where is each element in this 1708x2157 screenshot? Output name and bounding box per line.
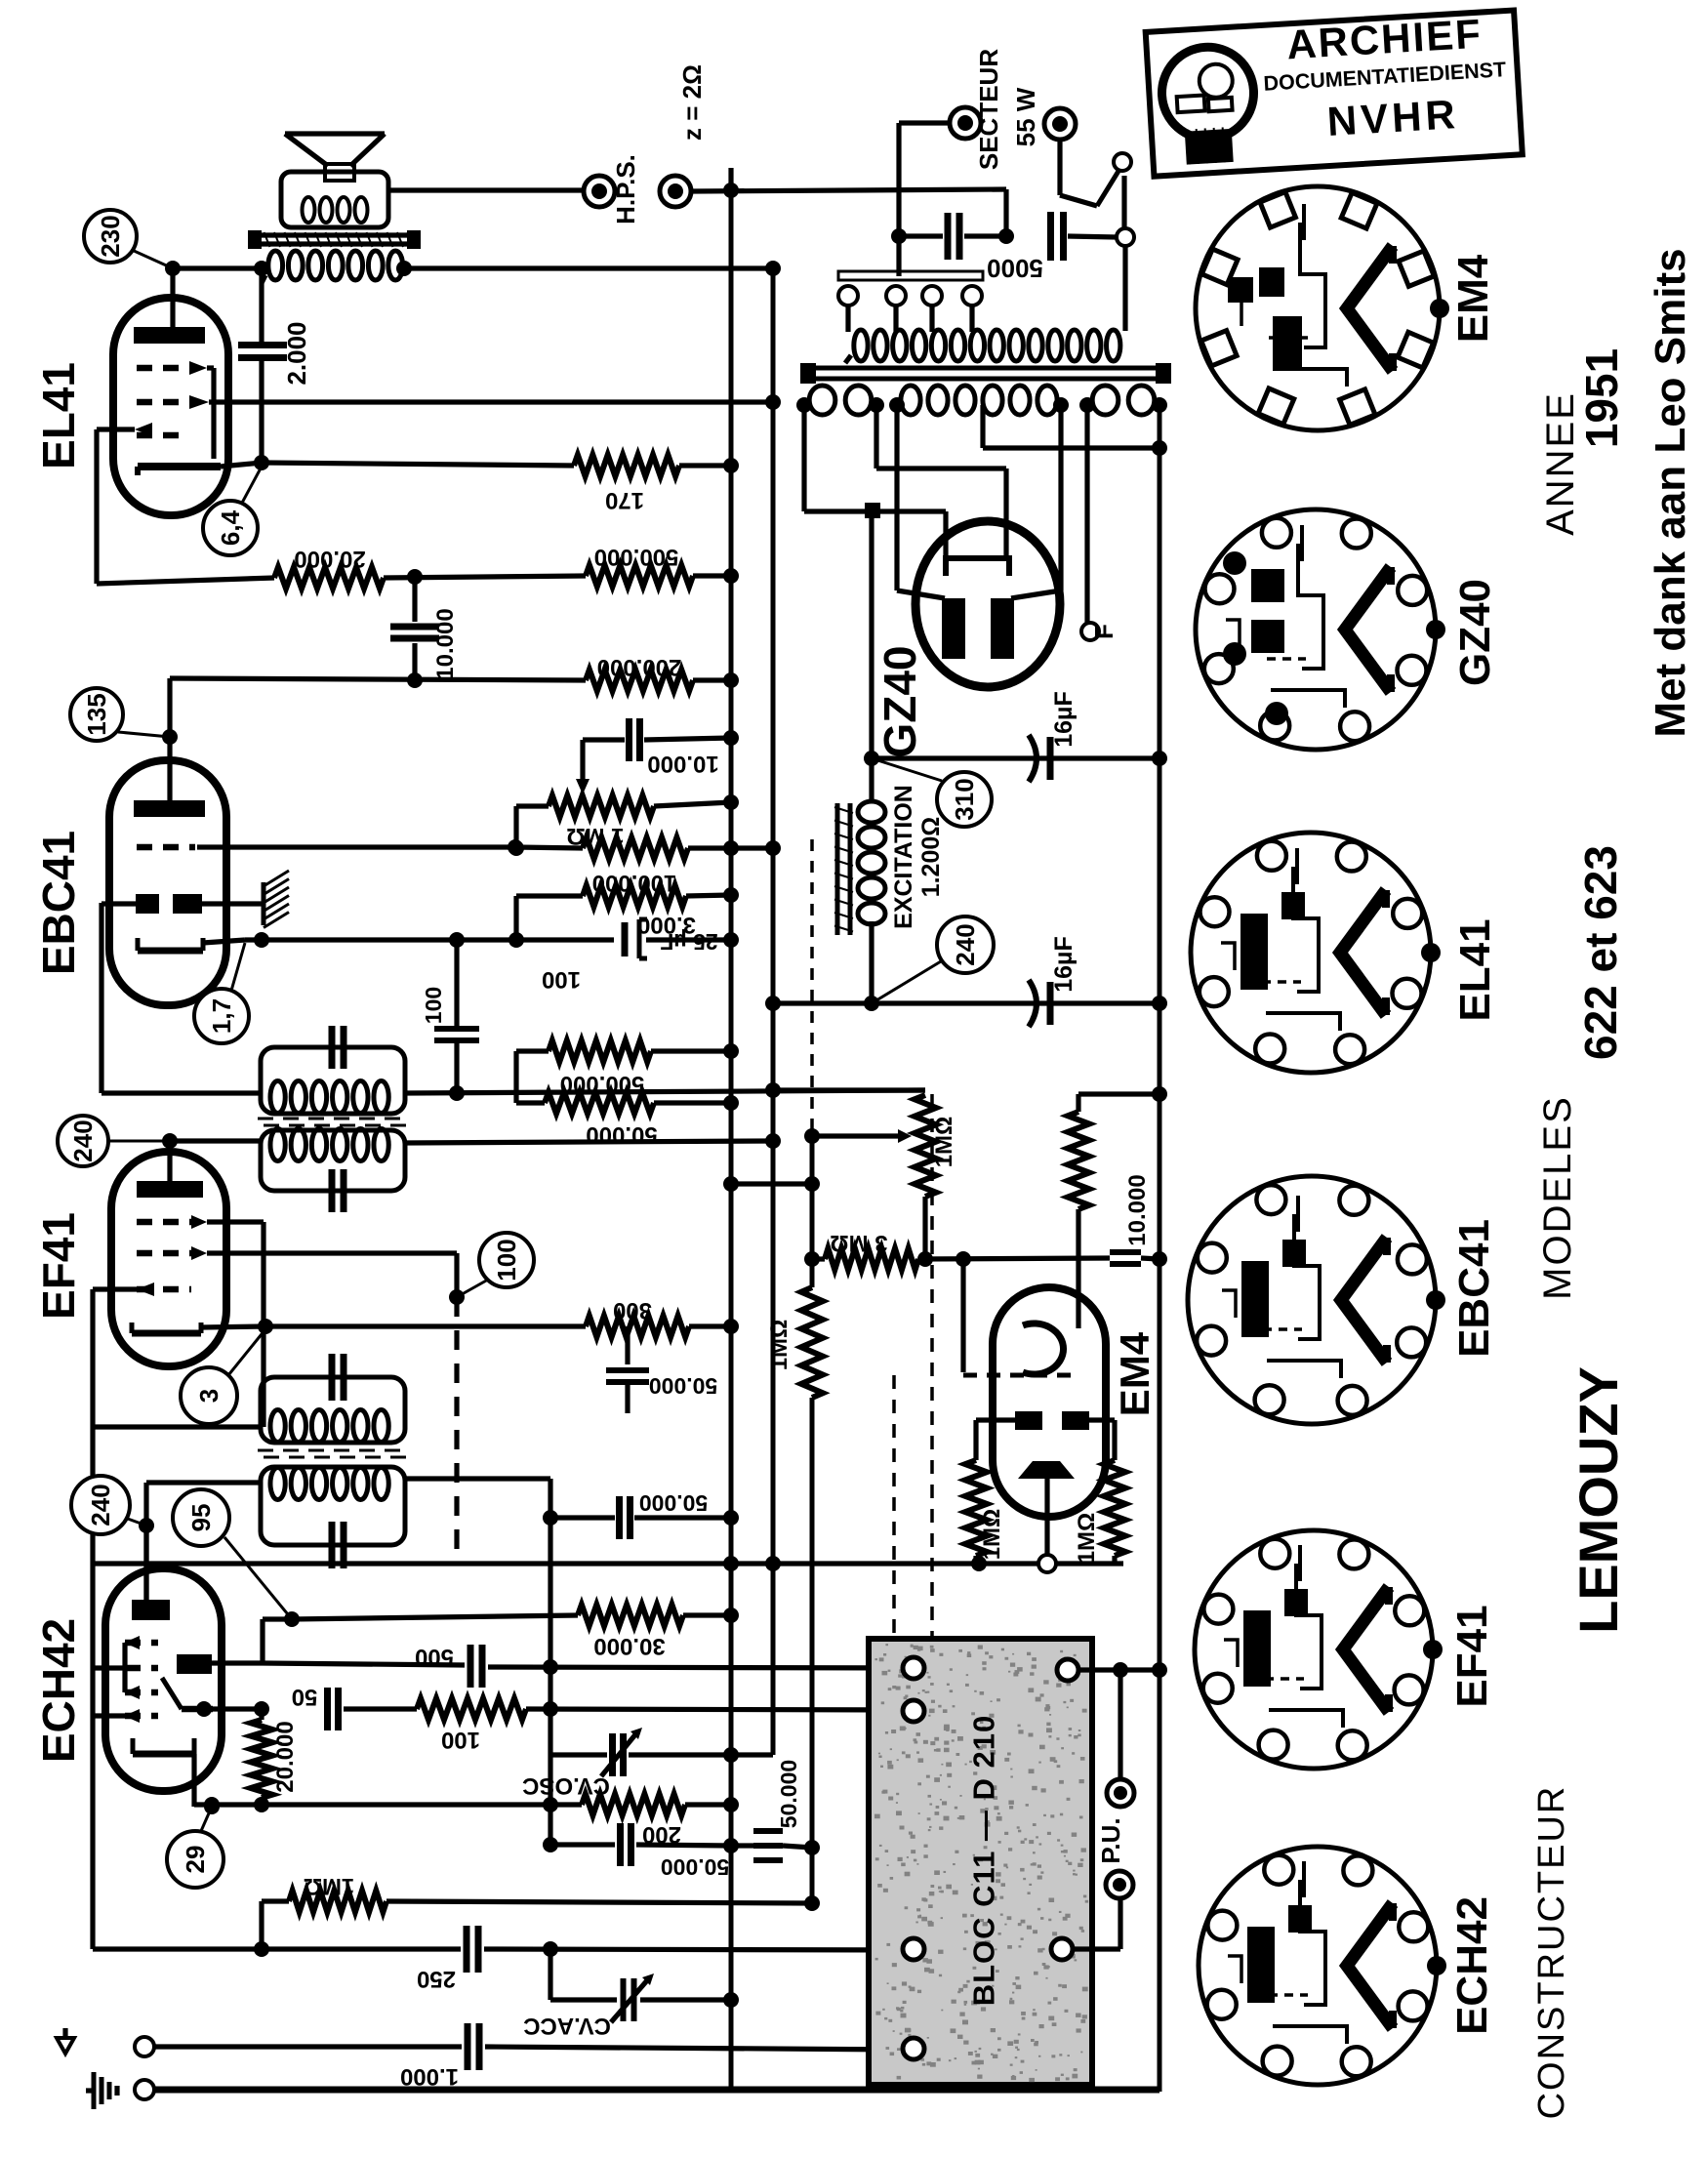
svg-text:29: 29 xyxy=(181,1846,210,1874)
svg-text:EL41: EL41 xyxy=(33,362,84,469)
svg-text:20.000: 20.000 xyxy=(272,1721,299,1792)
svg-text:EBC41: EBC41 xyxy=(33,831,84,975)
svg-text:Met dank aan Leo Smits: Met dank aan Leo Smits xyxy=(1647,248,1694,737)
svg-text:300: 300 xyxy=(613,1297,652,1323)
svg-text:EM4: EM4 xyxy=(1112,1331,1158,1416)
svg-text:25 µF: 25 µF xyxy=(660,929,717,955)
svg-text:P.U.: P.U. xyxy=(1096,1817,1125,1863)
svg-text:622 et 623: 622 et 623 xyxy=(1575,845,1626,1060)
svg-text:EL41: EL41 xyxy=(1451,918,1499,1021)
svg-text:16µF: 16µF xyxy=(1050,691,1078,747)
svg-text:20.000: 20.000 xyxy=(294,546,365,572)
svg-text:1MΩ: 1MΩ xyxy=(304,1873,355,1899)
svg-text:2.000: 2.000 xyxy=(282,321,311,385)
svg-text:EBC41: EBC41 xyxy=(1450,1219,1498,1358)
svg-text:MODELES: MODELES xyxy=(1536,1095,1579,1300)
svg-text:1 MΩ: 1 MΩ xyxy=(566,823,624,849)
svg-text:50.000: 50.000 xyxy=(661,1854,729,1880)
svg-text:ECH42: ECH42 xyxy=(1448,1896,1496,2035)
svg-text:1MΩ: 1MΩ xyxy=(931,1117,957,1168)
svg-text:500: 500 xyxy=(415,1644,454,1670)
svg-text:200.000: 200.000 xyxy=(597,654,682,680)
svg-text:240: 240 xyxy=(68,1119,98,1161)
svg-text:1.000: 1.000 xyxy=(400,2063,459,2090)
svg-text:F: F xyxy=(1089,624,1118,639)
svg-text:100: 100 xyxy=(421,987,446,1024)
svg-text:240: 240 xyxy=(951,923,980,965)
svg-text:6,4: 6,4 xyxy=(216,509,245,546)
svg-text:50.000: 50.000 xyxy=(649,1373,717,1399)
svg-text:50.000: 50.000 xyxy=(776,1760,801,1828)
svg-text:1MΩ: 1MΩ xyxy=(1074,1513,1100,1565)
svg-text:1.200Ω: 1.200Ω xyxy=(917,817,945,898)
svg-text:10.000: 10.000 xyxy=(647,751,718,777)
svg-text:1MΩ: 1MΩ xyxy=(979,1509,1005,1561)
svg-text:10.000: 10.000 xyxy=(432,608,459,679)
svg-text:EXCITATION: EXCITATION xyxy=(890,785,917,929)
svg-text:3: 3 xyxy=(194,1389,224,1403)
svg-text:CV.OSC: CV.OSC xyxy=(522,1772,610,1799)
svg-text:BLOC C11 — D 210: BLOC C11 — D 210 xyxy=(967,1715,1001,2007)
svg-text:1951: 1951 xyxy=(1576,348,1627,448)
svg-text:100: 100 xyxy=(441,1727,480,1753)
svg-text:1,7: 1,7 xyxy=(207,998,236,1034)
svg-text:55 W: 55 W xyxy=(1011,87,1040,146)
svg-text:GZ40: GZ40 xyxy=(1451,579,1499,686)
svg-text:100: 100 xyxy=(542,966,581,993)
svg-text:50.000: 50.000 xyxy=(639,1490,708,1516)
svg-text:30.000: 30.000 xyxy=(593,1633,665,1659)
svg-text:GZ40: GZ40 xyxy=(874,645,925,757)
svg-text:95: 95 xyxy=(186,1504,216,1532)
svg-text:EM4: EM4 xyxy=(1449,254,1497,343)
svg-text:LEMOUZY: LEMOUZY xyxy=(1567,1366,1629,1634)
svg-text:CV.ACC: CV.ACC xyxy=(523,2013,611,2039)
svg-text:NVHR: NVHR xyxy=(1326,91,1461,144)
svg-text:50: 50 xyxy=(292,1684,318,1710)
svg-text:16µF: 16µF xyxy=(1050,936,1078,992)
svg-text:z = 2Ω: z = 2Ω xyxy=(677,64,707,141)
svg-text:230: 230 xyxy=(96,215,125,257)
svg-text:10.000: 10.000 xyxy=(1124,1174,1151,1245)
svg-text:EF41: EF41 xyxy=(33,1212,84,1320)
svg-text:250: 250 xyxy=(417,1966,456,1992)
svg-text:500.000: 500.000 xyxy=(594,544,679,570)
svg-text:5000: 5000 xyxy=(987,254,1043,283)
svg-text:310: 310 xyxy=(950,778,979,820)
svg-text:1MΩ: 1MΩ xyxy=(766,1320,793,1371)
svg-text:ECH42: ECH42 xyxy=(33,1618,84,1763)
svg-text:EF41: EF41 xyxy=(1448,1605,1496,1707)
svg-text:170: 170 xyxy=(605,487,644,513)
svg-text:135: 135 xyxy=(82,693,111,735)
svg-text:3 MΩ: 3 MΩ xyxy=(830,1230,887,1256)
svg-text:SECTEUR: SECTEUR xyxy=(974,49,1003,170)
svg-text:100: 100 xyxy=(492,1239,521,1281)
svg-text:240: 240 xyxy=(86,1484,115,1526)
svg-text:H.P.S.: H.P.S. xyxy=(611,154,640,224)
svg-text:CONSTRUCTEUR: CONSTRUCTEUR xyxy=(1531,1785,1572,2120)
